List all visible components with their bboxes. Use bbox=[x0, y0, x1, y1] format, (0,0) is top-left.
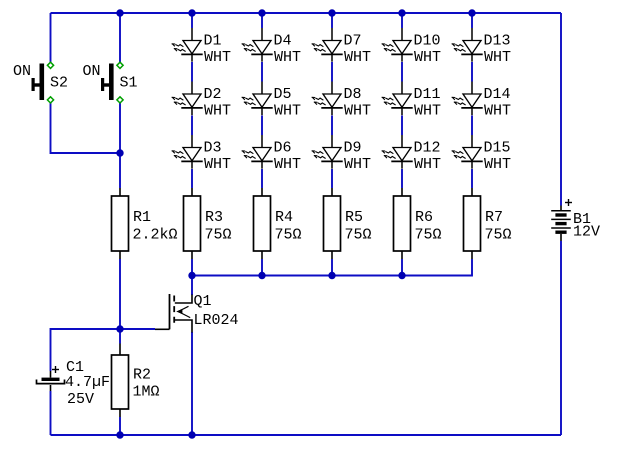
wire D12 to R6 bbox=[401, 169, 403, 188]
label D2 value WHT bbox=[204, 103, 231, 120]
svg-text:D11: D11 bbox=[414, 86, 441, 103]
svg-text:4.7µF: 4.7µF bbox=[65, 374, 110, 391]
pin S1 bottom bbox=[117, 97, 123, 103]
svg-text:75Ω: 75Ω bbox=[205, 227, 232, 244]
svg-text:LR024: LR024 bbox=[194, 312, 239, 329]
label R2 value 1M&#937; bbox=[133, 384, 160, 401]
label S1 bbox=[120, 75, 138, 92]
wire LED bus bbox=[192, 259, 472, 276]
wire D4 to D5 bbox=[261, 62, 263, 82]
svg-text:Q1: Q1 bbox=[194, 293, 212, 310]
svg-text:R7: R7 bbox=[485, 209, 503, 226]
label R4 value 75&#937; bbox=[275, 227, 302, 244]
label D15 bbox=[484, 139, 511, 156]
switch S1 bbox=[101, 64, 114, 101]
svg-text:WHT: WHT bbox=[414, 49, 441, 66]
wire D10 to D11 bbox=[401, 62, 403, 82]
wire top rail to D4 bbox=[261, 13, 263, 28]
wire R1 bottom to gate node bbox=[119, 259, 121, 329]
label R6 value 75&#937; bbox=[415, 227, 442, 244]
wire S2 bottom to node A bbox=[51, 103, 121, 153]
wire R2 bottom to bottom rail bbox=[119, 417, 121, 435]
svg-text:1MΩ: 1MΩ bbox=[133, 384, 160, 401]
label B1 bbox=[573, 211, 591, 228]
svg-text:R3: R3 bbox=[205, 209, 223, 226]
label R5 value 75&#937; bbox=[345, 227, 372, 244]
wire R6 to bus bbox=[401, 259, 403, 276]
svg-text:D15: D15 bbox=[484, 139, 511, 156]
svg-text:WHT: WHT bbox=[344, 156, 371, 173]
svg-text:D8: D8 bbox=[344, 86, 362, 103]
label B1 value 12V bbox=[573, 224, 600, 241]
svg-text:D5: D5 bbox=[274, 86, 292, 103]
LED D4 bbox=[242, 28, 273, 62]
svg-text:ON: ON bbox=[13, 63, 31, 80]
battery B1 bbox=[551, 206, 571, 242]
label R1 value 2.2k&#937; bbox=[133, 227, 178, 244]
label R7 bbox=[485, 209, 503, 226]
wire gate node to Q1 gate bbox=[120, 328, 155, 330]
svg-text:WHT: WHT bbox=[414, 103, 441, 120]
svg-text:WHT: WHT bbox=[344, 103, 371, 120]
svg-text:12V: 12V bbox=[573, 224, 600, 241]
label R3 bbox=[205, 209, 223, 226]
wire gate node to R2 top bbox=[119, 329, 121, 344]
wire top rail to D7 bbox=[331, 13, 333, 28]
LED D12 bbox=[382, 135, 413, 169]
svg-text:S1: S1 bbox=[120, 75, 138, 92]
wire D14 to D15 bbox=[471, 116, 473, 136]
svg-text:D7: D7 bbox=[344, 32, 362, 49]
label B1 plus sign bbox=[565, 199, 572, 206]
label D1 value WHT bbox=[204, 49, 231, 66]
wire bottom rail bbox=[51, 434, 562, 436]
label D8 bbox=[344, 86, 362, 103]
wire top rail to D13 bbox=[471, 13, 473, 28]
resistor R4 bbox=[254, 188, 271, 259]
svg-text:25V: 25V bbox=[67, 391, 94, 408]
svg-text:WHT: WHT bbox=[204, 156, 231, 173]
svg-text:D10: D10 bbox=[414, 32, 441, 49]
resistor R2 bbox=[112, 344, 129, 418]
resistor R5 bbox=[324, 188, 341, 259]
wire R3 to bus bbox=[191, 259, 193, 276]
label D8 value WHT bbox=[344, 103, 371, 120]
svg-text:75Ω: 75Ω bbox=[345, 227, 372, 244]
label D3 bbox=[204, 139, 222, 156]
label C1 voltage 25V bbox=[67, 391, 94, 408]
svg-text:S2: S2 bbox=[50, 75, 68, 92]
label D14 bbox=[484, 86, 511, 103]
wire S1 bottom to R1 top bbox=[119, 103, 121, 188]
wire D15 to R7 bbox=[471, 169, 473, 188]
wire R5 to bus bbox=[331, 259, 333, 276]
wire D11 to D12 bbox=[401, 116, 403, 136]
label C1 plus sign bbox=[52, 366, 59, 373]
label R4 bbox=[275, 209, 293, 226]
svg-text:WHT: WHT bbox=[414, 156, 441, 173]
LED D6 bbox=[242, 135, 273, 169]
label R1 bbox=[133, 209, 151, 226]
junction top rail x=120.0 bbox=[116, 9, 123, 16]
LED D2 bbox=[172, 82, 203, 116]
svg-text:R1: R1 bbox=[133, 209, 151, 226]
svg-text:75Ω: 75Ω bbox=[275, 227, 302, 244]
svg-text:D3: D3 bbox=[204, 139, 222, 156]
svg-text:R5: R5 bbox=[345, 209, 363, 226]
wire top rail to D10 bbox=[401, 13, 403, 28]
junction top rail x=472 bbox=[468, 9, 475, 16]
wire C1 bottom to bottom rail bbox=[50, 391, 52, 435]
label R5 bbox=[345, 209, 363, 226]
wire top rail bbox=[51, 12, 562, 14]
LED D1 bbox=[172, 28, 203, 62]
svg-text:WHT: WHT bbox=[484, 49, 511, 66]
svg-text:2.2kΩ: 2.2kΩ bbox=[133, 227, 178, 244]
label D13 value WHT bbox=[484, 49, 511, 66]
resistor R6 bbox=[394, 188, 411, 259]
svg-text:D9: D9 bbox=[344, 139, 362, 156]
label D7 value WHT bbox=[344, 49, 371, 66]
svg-text:D6: D6 bbox=[274, 139, 292, 156]
svg-text:D1: D1 bbox=[204, 32, 222, 49]
LED D3 bbox=[172, 135, 203, 169]
LED D15 bbox=[452, 135, 483, 169]
label Q1 value LR024 bbox=[194, 312, 239, 329]
LED D7 bbox=[312, 28, 343, 62]
svg-text:R6: R6 bbox=[415, 209, 433, 226]
junction top rail x=402 bbox=[398, 9, 405, 16]
wire bus to Q1 drain bbox=[191, 276, 193, 296]
junction top rail x=332 bbox=[328, 9, 335, 16]
svg-text:75Ω: 75Ω bbox=[485, 227, 512, 244]
svg-text:D12: D12 bbox=[414, 139, 441, 156]
wire D5 to D6 bbox=[261, 116, 263, 136]
svg-text:R4: R4 bbox=[275, 209, 293, 226]
wire D9 to R5 bbox=[331, 169, 333, 188]
svg-text:WHT: WHT bbox=[344, 49, 371, 66]
label D6 bbox=[274, 139, 292, 156]
label S2 state ON bbox=[13, 63, 31, 80]
transistor Q1 bbox=[155, 294, 192, 333]
label C1 bbox=[66, 359, 84, 376]
junction top rail x=192 bbox=[188, 9, 195, 16]
pin S2 top bbox=[47, 62, 53, 68]
svg-text:WHT: WHT bbox=[484, 103, 511, 120]
capacitor C1 bbox=[37, 371, 65, 391]
label S1 state ON bbox=[83, 63, 101, 80]
label D7 bbox=[344, 32, 362, 49]
label R7 value 75&#937; bbox=[485, 227, 512, 244]
svg-text:ON: ON bbox=[83, 63, 101, 80]
wire top rail right drop to B1 positive bbox=[560, 13, 562, 206]
resistor R1 bbox=[112, 188, 129, 259]
wire D2 to D3 bbox=[191, 116, 193, 136]
label D12 bbox=[414, 139, 441, 156]
label D15 value WHT bbox=[484, 156, 511, 173]
label D4 value WHT bbox=[274, 49, 301, 66]
svg-text:WHT: WHT bbox=[204, 103, 231, 120]
junction bottom rail Q1 source bbox=[188, 431, 195, 438]
junction bus x=192 bbox=[188, 272, 195, 279]
label D4 bbox=[274, 32, 292, 49]
wire gate node left to C1 bbox=[51, 329, 121, 371]
wire B1 negative to bottom rail bbox=[560, 241, 562, 435]
svg-text:75Ω: 75Ω bbox=[415, 227, 442, 244]
pin S1 top bbox=[117, 62, 123, 68]
label R6 bbox=[415, 209, 433, 226]
wire top rail to D1 bbox=[191, 13, 193, 28]
label D12 value WHT bbox=[414, 156, 441, 173]
junction bus x=402 bbox=[398, 272, 405, 279]
svg-text:D14: D14 bbox=[484, 86, 511, 103]
svg-text:WHT: WHT bbox=[274, 103, 301, 120]
label R2 bbox=[133, 367, 151, 384]
svg-text:WHT: WHT bbox=[204, 49, 231, 66]
label D5 value WHT bbox=[274, 103, 301, 120]
resistor R7 bbox=[464, 188, 481, 259]
label D6 value WHT bbox=[274, 156, 301, 173]
wire D8 to D9 bbox=[331, 116, 333, 136]
wire top rail left drop to S2 bbox=[50, 13, 52, 62]
switch S2 bbox=[32, 64, 45, 101]
wire D1 to D2 bbox=[191, 62, 193, 82]
LED D14 bbox=[452, 82, 483, 116]
svg-text:WHT: WHT bbox=[484, 156, 511, 173]
wire Q1 source to bottom rail bbox=[191, 332, 193, 435]
label D11 value WHT bbox=[414, 103, 441, 120]
junction top rail x=262 bbox=[258, 9, 265, 16]
wire D13 to D14 bbox=[471, 62, 473, 82]
svg-text:D4: D4 bbox=[274, 32, 292, 49]
label D2 bbox=[204, 86, 222, 103]
label Q1 bbox=[194, 293, 212, 310]
svg-text:WHT: WHT bbox=[274, 156, 301, 173]
junction bottom rail R2 bbox=[116, 431, 123, 438]
wire D3 to R3 bbox=[191, 169, 193, 188]
LED D10 bbox=[382, 28, 413, 62]
label D3 value WHT bbox=[204, 156, 231, 173]
wire D6 to R4 bbox=[261, 169, 263, 188]
junction bus x=332 bbox=[328, 272, 335, 279]
label R3 value 75&#937; bbox=[205, 227, 232, 244]
svg-text:D13: D13 bbox=[484, 32, 511, 49]
label D9 value WHT bbox=[344, 156, 371, 173]
svg-text:WHT: WHT bbox=[274, 49, 301, 66]
LED D13 bbox=[452, 28, 483, 62]
label D13 bbox=[484, 32, 511, 49]
wire D7 to D8 bbox=[331, 62, 333, 82]
label D1 bbox=[204, 32, 222, 49]
svg-text:D2: D2 bbox=[204, 86, 222, 103]
pin S2 bottom bbox=[47, 97, 53, 103]
junction bus x=262 bbox=[258, 272, 265, 279]
resistor R3 bbox=[184, 188, 201, 259]
LED D5 bbox=[242, 82, 273, 116]
label D10 value WHT bbox=[414, 49, 441, 66]
label C1 value 4.7&#181;F bbox=[65, 374, 110, 391]
label D10 bbox=[414, 32, 441, 49]
LED D8 bbox=[312, 82, 343, 116]
wire R4 to bus bbox=[261, 259, 263, 276]
junction gate node bbox=[116, 325, 123, 332]
LED D9 bbox=[312, 135, 343, 169]
label D9 bbox=[344, 139, 362, 156]
wire S1 top bbox=[119, 13, 121, 62]
label D5 bbox=[274, 86, 292, 103]
junction node A (S1/S2 to R1) bbox=[116, 149, 123, 156]
label D14 value WHT bbox=[484, 103, 511, 120]
label S2 bbox=[50, 75, 68, 92]
svg-text:R2: R2 bbox=[133, 367, 151, 384]
LED D11 bbox=[382, 82, 413, 116]
label D11 bbox=[414, 86, 441, 103]
